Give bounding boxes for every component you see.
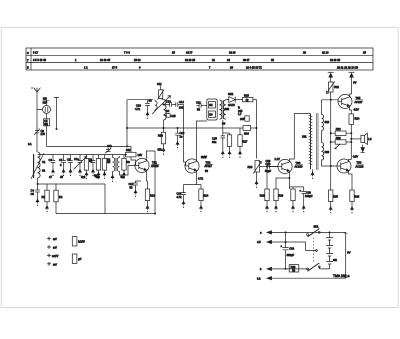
trimmer capacitor C4b above bus	[105, 144, 112, 153]
wire S22 top to TS5 base	[322, 100, 339, 115]
supply line 1	[260, 231, 346, 235]
svg-text:C13: C13	[166, 100, 171, 104]
legend symbol row 2	[47, 245, 57, 249]
wire TS2 collector up to IF2	[196, 121, 207, 160]
svg-text:26 27: 26 27	[243, 58, 250, 62]
junction dot AGC at R13	[163, 127, 165, 129]
capacitor C14	[172, 100, 185, 110]
svg-text:TS3: TS3	[296, 161, 301, 165]
svg-text:C15: C15	[171, 114, 176, 118]
svg-text:18 20 25: 18 20 25	[330, 58, 341, 62]
svg-text:10V: 10V	[138, 153, 143, 157]
svg-text:AF117: AF117	[205, 164, 213, 168]
svg-text:R12: R12	[150, 194, 155, 198]
wire TS6 collector	[349, 159, 352, 162]
svg-text:R19: R19	[260, 194, 265, 198]
wire coil S1 bottom to node	[37, 178, 39, 184]
svg-text:R16: R16	[244, 132, 249, 136]
svg-text:C: C	[27, 51, 29, 55]
speaker return arrow	[361, 145, 365, 153]
svg-text:C30: C30	[306, 190, 311, 194]
svg-text:GR1: GR1	[228, 92, 234, 96]
transistor TS2	[185, 159, 199, 173]
resistor R5	[102, 155, 110, 179]
ground transformer primary	[311, 169, 314, 179]
resistor R3	[84, 155, 92, 179]
bias line left rail	[330, 100, 332, 190]
bypass capacitor C30	[300, 189, 313, 212]
resistor R17a	[223, 133, 232, 158]
transformer secondary S22	[322, 115, 330, 131]
svg-text:R6: R6	[126, 160, 130, 164]
junction dot AGC at C16	[177, 127, 179, 129]
junction dot coil bottom	[37, 183, 39, 185]
switch coupling dashed link	[312, 238, 314, 263]
transistor TS6	[337, 159, 351, 173]
IF transformer S5-S6 coil	[220, 100, 230, 119]
tuner top bus wire	[38, 154, 128, 156]
svg-text:2k2: 2k2	[81, 175, 86, 179]
svg-text:8.1V: 8.1V	[201, 155, 207, 159]
ground under R18	[255, 172, 258, 188]
svg-text:R23: R23	[336, 136, 341, 140]
svg-text:4.7n: 4.7n	[135, 107, 141, 111]
svg-text:3M: 3M	[44, 122, 48, 126]
volume control R18	[248, 161, 262, 174]
resistor R2	[54, 184, 63, 202]
svg-text:R21: R21	[334, 85, 339, 89]
svg-text:S6: S6	[209, 113, 213, 117]
battery cell 3	[326, 248, 333, 256]
label TS3 AC125	[295, 161, 304, 169]
AGC line	[127, 127, 244, 129]
svg-text:OA70: OA70	[228, 103, 235, 107]
svg-text:TS2: TS2	[206, 161, 211, 165]
wire TS3 collector to driver transformer	[289, 114, 310, 161]
legend resistor sample 1	[72, 237, 85, 246]
ground bus wire	[56, 213, 155, 215]
wire S2 primary top	[112, 155, 114, 158]
svg-text:mV: mV	[53, 237, 57, 241]
svg-text:20 21 22 23 24 25: 20 21 22 23 24 25	[337, 65, 358, 69]
earphone socket B1	[43, 105, 51, 113]
battery bottom lead	[319, 264, 329, 269]
svg-text:C7: C7	[59, 158, 63, 162]
wire IF2 top to diode	[226, 99, 229, 101]
svg-text:1.7: 1.7	[238, 112, 242, 116]
IF filter unit box	[207, 99, 217, 120]
detector output line down	[256, 100, 258, 159]
svg-text:27 5: 27 5	[112, 65, 118, 69]
supply line 4	[257, 276, 346, 280]
resistor R27 on supply line	[289, 265, 299, 273]
junction dot battery top	[329, 231, 331, 233]
label TS6 AC128	[356, 161, 365, 169]
svg-text:TS5: TS5	[356, 96, 361, 100]
wire TS5 emitter down	[350, 108, 352, 114]
resistor R26	[350, 190, 360, 213]
svg-text:4.7k: 4.7k	[198, 177, 204, 181]
resistor R4	[94, 155, 101, 179]
svg-text:S2: S2	[107, 158, 111, 162]
wire emitter bypass to ground bus	[154, 151, 156, 214]
junction dot detector-AGC	[256, 127, 258, 129]
svg-text:mV: mV	[53, 246, 57, 250]
svg-text:B: B	[27, 66, 29, 70]
electrolytic C33	[281, 231, 295, 270]
svg-text:400µF: 400µF	[287, 253, 295, 257]
svg-text:SK1: SK1	[314, 225, 319, 229]
TS3 base bias resistor R19	[260, 166, 279, 213]
capacitor C9	[91, 155, 96, 177]
wire S22 bottom tap	[321, 131, 323, 143]
transistor TS3	[278, 159, 292, 173]
resistor R22	[330, 127, 353, 135]
svg-text:16.77: 16.77	[186, 51, 193, 55]
svg-text:S5: S5	[209, 103, 213, 107]
ruler table outer box	[26, 48, 373, 70]
svg-text:1 2: 1 2	[84, 65, 88, 69]
legend symbol row 4	[47, 262, 57, 266]
svg-text:C6: C6	[49, 158, 53, 162]
svg-text:AC128: AC128	[356, 164, 364, 168]
svg-text:TS6: TS6	[357, 161, 362, 165]
svg-text:4.5V: 4.5V	[353, 154, 359, 158]
diode GR1	[228, 92, 241, 107]
svg-text:C1a: C1a	[74, 157, 79, 161]
TS3 emitter resistor R20a	[274, 172, 290, 212]
supply arrow feed R21	[328, 72, 334, 82]
thermistor R23	[330, 136, 353, 149]
capacitor C21	[196, 100, 207, 111]
transistor TS5	[338, 94, 352, 108]
svg-text:TMA 198 a: TMA 198 a	[333, 274, 350, 278]
svg-text:4.5V: 4.5V	[354, 107, 360, 111]
wire TS2 emitter down	[184, 172, 202, 185]
capacitor C13	[164, 100, 172, 107]
svg-text:mV: mV	[53, 262, 57, 266]
wire TS5 collector to supply	[350, 94, 352, 95]
value labels mid	[158, 121, 226, 172]
label TS5 AC127	[355, 96, 364, 104]
svg-text:AC127: AC127	[355, 100, 363, 104]
svg-text:C33: C33	[289, 246, 294, 250]
driver transformer primary S21	[302, 114, 312, 170]
capacitor C15 osc tap	[164, 114, 177, 118]
svg-text:7 6 6: 7 6 6	[124, 51, 130, 55]
oscillator tuning arrow	[152, 96, 171, 115]
resistor R15	[241, 93, 257, 102]
svg-text:µF: µF	[78, 257, 81, 261]
TS3 emitter resistor R21a	[288, 177, 303, 212]
resistor R11 in TS1 base feed	[126, 146, 143, 165]
svg-text:0.1: 0.1	[257, 276, 261, 280]
coupling capacitor C28	[260, 159, 278, 173]
capacitor C24	[240, 116, 249, 121]
svg-text:18 4 15 15 71: 18 4 15 15 71	[246, 65, 262, 69]
svg-text:R19: R19	[278, 194, 283, 198]
svg-text:6 5 5 45 45: 6 5 5 45 45	[33, 58, 47, 62]
svg-text:680: 680	[96, 175, 101, 179]
svg-text:S23: S23	[325, 150, 330, 154]
svg-text:S21: S21	[302, 135, 307, 139]
ruler table label column	[30, 48, 32, 70]
transformer secondary S23	[322, 143, 330, 161]
svg-text:S20: S20	[225, 107, 230, 111]
battery B9V cell 1	[326, 232, 333, 240]
battery cell 2	[326, 240, 333, 248]
svg-text:S22: S22	[325, 120, 330, 124]
junction dot TS5 base node	[330, 99, 332, 101]
wire B1 top stub	[46, 97, 48, 105]
legend resistor sample 2	[72, 254, 81, 263]
IF2 filter caps C25	[212, 120, 225, 158]
ground S2 primary	[111, 171, 114, 182]
wire R2 bottom to ground bus	[55, 202, 57, 214]
svg-text:R26: R26	[354, 195, 359, 199]
terminal post node	[54, 98, 59, 131]
svg-text:24P: 24P	[240, 117, 245, 121]
preset resistor R21	[326, 81, 339, 93]
ground under R1	[46, 202, 49, 213]
wire antenna to trimmer C3	[36, 92, 38, 129]
svg-text:18 19: 18 19	[229, 51, 236, 55]
wire S23 bottom to TS6 base	[322, 160, 338, 166]
svg-text:C16: C16	[180, 131, 185, 135]
wire coil S4 bottom to AGC line	[163, 120, 165, 132]
capacitor C12	[129, 181, 142, 197]
wire TS1 emitter down	[146, 171, 147, 181]
wire C14 to TS2 base	[184, 105, 186, 166]
capacitor C10	[135, 100, 150, 119]
capacitor C16	[175, 128, 185, 148]
svg-text:4.7k: 4.7k	[177, 195, 183, 199]
transistor TS1	[135, 158, 149, 172]
wire input bottom corner down	[104, 184, 106, 214]
svg-text:C10: C10	[136, 103, 141, 107]
svg-text:AC125: AC125	[295, 164, 303, 168]
svg-text:GR: GR	[333, 258, 337, 262]
battery cell 4	[326, 256, 333, 264]
supply line 3	[260, 267, 308, 271]
9V dimension line	[344, 232, 351, 278]
svg-text:16 43 45: 16 43 45	[100, 58, 111, 62]
resistor R12	[145, 181, 155, 212]
svg-text:R20: R20	[291, 265, 296, 269]
svg-text:8 17: 8 17	[33, 51, 39, 55]
svg-text:4.5: 4.5	[257, 240, 261, 244]
svg-text:C5: C5	[31, 192, 35, 196]
antenna A1	[31, 88, 40, 92]
svg-text:R25: R25	[333, 195, 338, 199]
svg-text:5k6: 5k6	[121, 175, 126, 179]
legend symbol row 3	[47, 254, 59, 258]
transformer core	[316, 113, 318, 170]
svg-text:R24: R24	[355, 116, 360, 120]
ground under C4	[36, 197, 39, 206]
resistor R25	[329, 190, 339, 213]
svg-text:C11: C11	[157, 82, 162, 86]
svg-text:39k: 39k	[158, 148, 163, 152]
wire R21 to TS5 base node	[330, 92, 332, 100]
svg-text:mV/V: mV/V	[52, 254, 59, 258]
junction dot TS1 bus	[154, 213, 156, 215]
svg-text:C8: C8	[67, 158, 71, 162]
wire B1 to x37 line	[37, 108, 43, 110]
label B1 91P	[43, 96, 50, 104]
oscillator coil S4	[161, 99, 170, 120]
svg-text:R13: R13	[158, 134, 163, 138]
supply line 2	[257, 240, 317, 251]
capacitor C5 box	[44, 119, 50, 126]
svg-text:C29: C29	[266, 162, 271, 166]
detector load network labels	[238, 106, 243, 116]
ruler table row lines	[26, 55, 373, 62]
svg-text:R2: R2	[59, 195, 63, 199]
ferrite rod antenna coil S1	[31, 152, 46, 179]
supply arrow feed TS5 collector	[349, 72, 355, 94]
switch SK1 pole 1	[307, 229, 321, 237]
svg-text:63n: 63n	[212, 140, 217, 144]
label TS1 AF116	[151, 161, 160, 169]
wire TS1 collector up	[146, 151, 155, 160]
svg-text:C4: C4	[31, 189, 35, 193]
resistor R17b	[238, 128, 248, 158]
trimmer capacitor C11	[157, 82, 164, 100]
trimmer capacitor C3	[34, 128, 45, 137]
AGC line from C5 branch	[47, 145, 132, 147]
svg-text:R1: R1	[42, 195, 46, 199]
capacitor C6	[49, 155, 56, 177]
svg-text:LS: LS	[368, 137, 371, 141]
svg-text:S4: S4	[166, 109, 170, 113]
svg-text:S1: S1	[42, 169, 46, 173]
capacitor C7	[59, 155, 66, 177]
bottom wire of input circuit	[38, 183, 106, 185]
svg-text:C14: C14	[179, 100, 184, 104]
resistor R14	[199, 185, 209, 213]
resistor R6	[122, 155, 130, 179]
resistor R16 on AGC line	[243, 126, 257, 136]
wire C5 down to AGC takeoff corner	[46, 126, 48, 147]
loudspeaker LS	[350, 133, 371, 144]
svg-text:100µF: 100µF	[305, 194, 313, 198]
svg-text:R14: R14	[203, 194, 208, 198]
wire S2 secondary to TS1 base	[120, 156, 136, 175]
wire C3 to coil S1	[36, 136, 38, 152]
oscillator coil S3	[149, 99, 158, 112]
junction dot bias-TS6 base	[330, 165, 332, 167]
svg-text:175: 175	[41, 132, 46, 136]
svg-text:9V: 9V	[347, 250, 350, 254]
resistor R1	[42, 184, 50, 202]
svg-text:C1: C1	[42, 160, 46, 164]
wire B1 to C5	[46, 113, 48, 118]
variable capacitor C1a	[74, 155, 87, 177]
capacitor C4	[31, 184, 40, 197]
svg-text:C9: C9	[89, 157, 93, 161]
svg-text:S6: S6	[222, 121, 226, 125]
svg-text:kΩ/W: kΩ/W	[78, 239, 85, 243]
switch SK1 pole 2	[307, 263, 321, 271]
svg-text:C18: C18	[177, 192, 182, 196]
svg-text:50µF: 50µF	[265, 169, 271, 173]
svg-text:15 16: 15 16	[134, 58, 141, 62]
junction dot coil tap	[163, 104, 165, 106]
wire TS6 emitter down to R26	[349, 172, 352, 189]
svg-text:18 20 25: 18 20 25	[185, 58, 196, 62]
svg-text:9V: 9V	[353, 81, 356, 85]
svg-text:R11: R11	[126, 148, 131, 152]
svg-text:C25: C25	[212, 137, 217, 141]
resistor R24	[349, 114, 360, 160]
svg-text:21 24: 21 24	[322, 51, 329, 55]
svg-text:R15: R15	[244, 93, 249, 97]
IF transformer S2	[107, 158, 120, 172]
label TS2 AF117	[205, 161, 214, 169]
junction dot AGC left	[126, 127, 128, 129]
svg-text:R22: R22	[336, 127, 341, 131]
svg-text:S3: S3	[149, 99, 153, 103]
svg-text:6.1: 6.1	[28, 142, 32, 146]
svg-text:C21: C21	[196, 100, 201, 104]
value labels tuner	[49, 157, 125, 178]
oscillator feed line	[127, 100, 153, 147]
junction dot AGC-osc	[126, 145, 128, 147]
legend symbol row 1	[47, 237, 57, 241]
capacitor C18	[177, 185, 186, 208]
svg-text:R18: R18	[248, 165, 253, 169]
capacitor C8	[67, 155, 73, 177]
svg-text:1.1V: 1.1V	[275, 157, 281, 161]
svg-text:R17: R17	[243, 140, 248, 144]
resistor R13	[158, 132, 166, 155]
